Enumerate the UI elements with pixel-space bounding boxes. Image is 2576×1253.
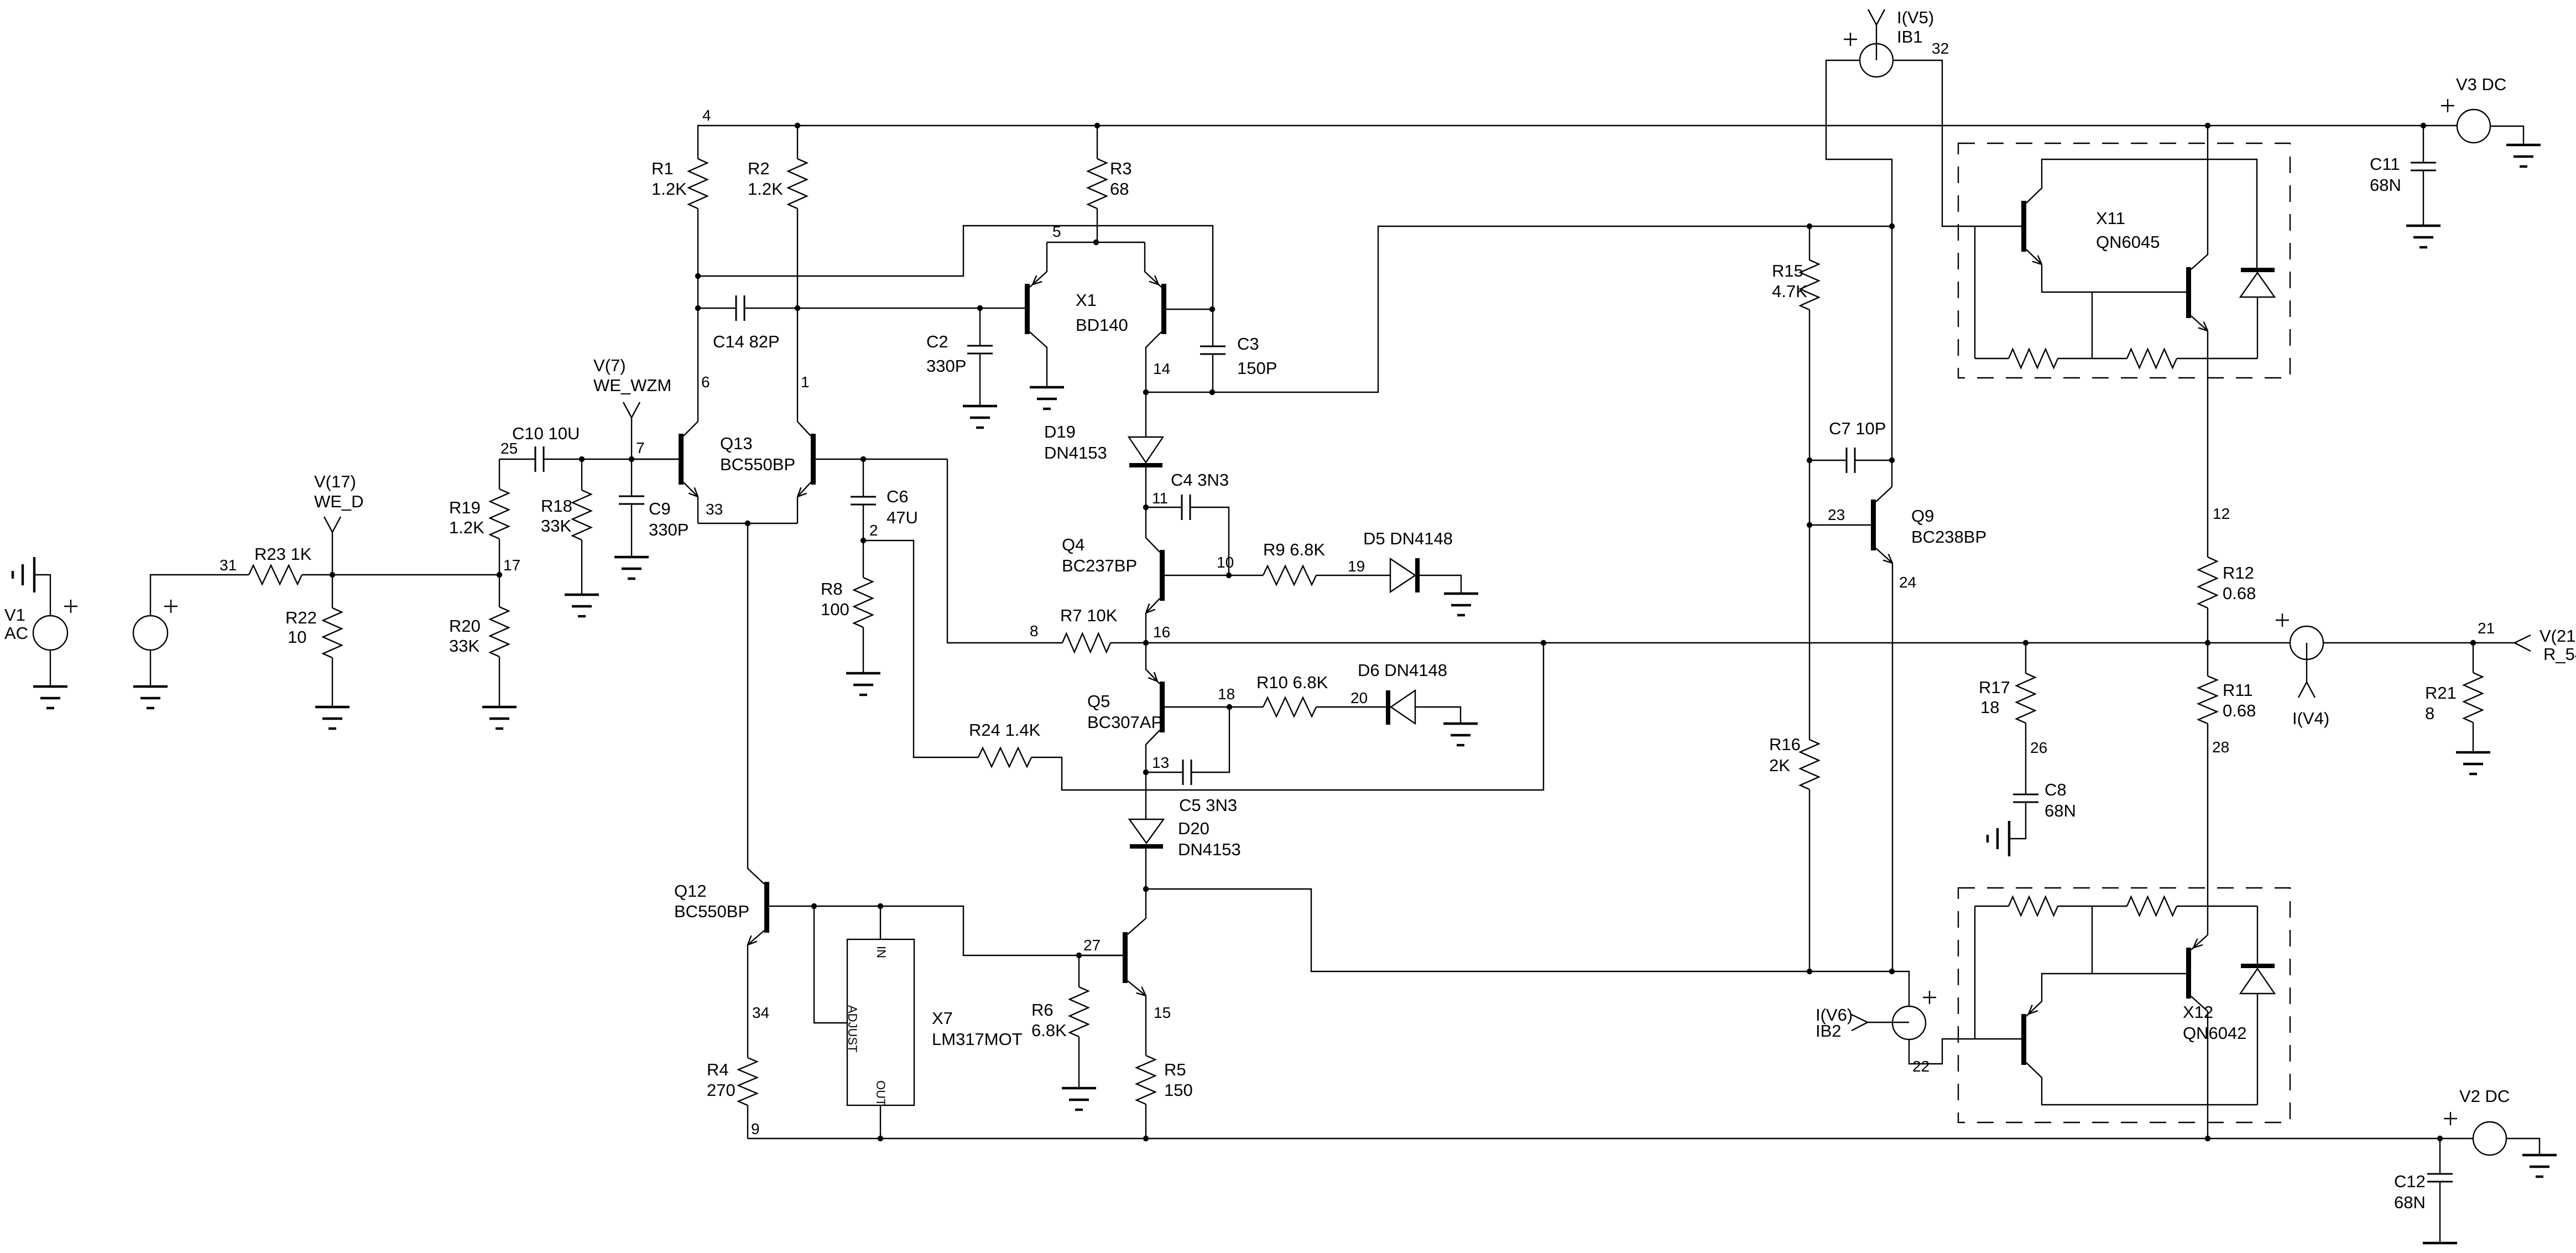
svg-text:1.2K: 1.2K <box>748 179 783 199</box>
svg-text:10: 10 <box>1217 554 1234 571</box>
wire D20 node to X12 drive line <box>1146 889 1909 1006</box>
svg-text:20: 20 <box>1350 689 1368 706</box>
junction R16 bottom <box>1807 969 1812 974</box>
svg-text:15: 15 <box>1154 1004 1171 1021</box>
svg-text:C14 82P: C14 82P <box>713 332 780 351</box>
junction node 10 <box>1226 573 1232 578</box>
junction C6 top <box>861 456 866 462</box>
junction node14 X1 collector <box>1143 389 1149 395</box>
svg-text:1.2K: 1.2K <box>651 179 687 199</box>
resistor R11 <box>2207 643 2208 676</box>
svg-text:Q9: Q9 <box>1911 506 1934 526</box>
svg-text:8: 8 <box>2425 704 2434 723</box>
svg-text:0.68: 0.68 <box>2223 701 2256 720</box>
ground V1 <box>33 685 67 688</box>
voltage source V3 <box>2457 110 2490 143</box>
resistor X12 internal 1 <box>1975 906 2009 907</box>
svg-text:R11: R11 <box>2223 680 2253 700</box>
resistor R7 <box>947 459 1062 643</box>
transistor X11 first <box>2021 201 2026 252</box>
wire V1 top <box>34 575 50 616</box>
ground C11 <box>2406 225 2441 227</box>
svg-text:X1: X1 <box>1076 290 1097 310</box>
svg-text:R15: R15 <box>1772 261 1803 280</box>
capacitor C2 <box>979 308 981 346</box>
junction X12 collector rail <box>2205 1136 2210 1141</box>
svg-text:330P: 330P <box>926 356 966 376</box>
svg-text:C2: C2 <box>926 332 948 351</box>
svg-text:Q4: Q4 <box>1062 535 1084 554</box>
resistor R4 <box>738 1058 757 1105</box>
resistor R5 <box>1136 1056 1155 1104</box>
junction node 5 R3 <box>1093 240 1099 245</box>
diode X11 internal <box>2241 268 2275 272</box>
svg-text:AC: AC <box>4 623 28 643</box>
svg-text:D5 DN4148: D5 DN4148 <box>1363 529 1453 548</box>
current source IB2 <box>1892 1006 1926 1039</box>
junction rail R24 riser <box>1541 640 1546 646</box>
transistor Q13 right half <box>811 434 816 485</box>
svg-text:WE_D: WE_D <box>314 492 364 511</box>
subcircuit box X11 <box>1958 143 2290 378</box>
svg-text:V2 DC: V2 DC <box>2459 1086 2510 1106</box>
svg-text:33K: 33K <box>541 516 571 535</box>
ground C12 <box>2423 1242 2457 1244</box>
junction node 2 <box>861 538 866 543</box>
junction node 11 <box>1143 505 1149 510</box>
svg-text:DN4153: DN4153 <box>1044 443 1107 462</box>
junction C7 right <box>1889 457 1895 463</box>
regulator X7 LM317MOT <box>847 939 914 1105</box>
svg-text:ADJUST: ADJUST <box>846 1005 859 1053</box>
svg-text:68N: 68N <box>2394 1193 2426 1212</box>
svg-text:R22: R22 <box>285 608 317 627</box>
capacitor C11 <box>2423 126 2424 163</box>
junction D20 output node <box>1143 886 1149 892</box>
resistor R6 <box>1078 955 1080 987</box>
svg-text:BC238BP: BC238BP <box>1911 527 1986 547</box>
svg-text:R21: R21 <box>2425 683 2457 703</box>
svg-text:24: 24 <box>1899 574 1916 591</box>
ground V2 <box>2522 1154 2557 1156</box>
resistor R23 <box>249 565 302 584</box>
junction node 13 <box>1143 770 1149 775</box>
svg-text:14: 14 <box>1153 360 1170 377</box>
wire bottom rail node 9 <box>748 1138 2473 1139</box>
junction node14 IB1 line <box>1889 223 1895 229</box>
resistor R16 <box>1800 740 1819 789</box>
current source I(V4) <box>2290 626 2323 659</box>
voltage source V1 <box>33 616 67 650</box>
svg-text:R1: R1 <box>651 159 674 178</box>
capacitor C9 <box>631 459 632 496</box>
svg-text:C8: C8 <box>2045 780 2067 799</box>
junction node 17 <box>497 572 502 578</box>
junction Q13 tail <box>745 521 750 526</box>
svg-text:C11: C11 <box>2370 154 2400 174</box>
svg-text:C12: C12 <box>2394 1172 2426 1191</box>
junction C14 line R2 <box>795 305 800 311</box>
resistor R18 <box>581 459 582 490</box>
svg-text:47U: 47U <box>887 508 918 527</box>
svg-text:R12: R12 <box>2223 563 2254 583</box>
svg-text:R19: R19 <box>449 498 481 517</box>
junction R2 top rail <box>795 123 800 128</box>
svg-text:V(7): V(7) <box>593 356 626 375</box>
wire node 2 to R24 <box>863 540 978 757</box>
junction R15 top <box>1807 223 1812 229</box>
svg-text:C9: C9 <box>649 499 671 518</box>
resistor X11 internal 1 <box>1975 358 2009 359</box>
svg-text:OUT: OUT <box>874 1080 888 1106</box>
capacitor C12 <box>2439 1138 2441 1174</box>
junction Q9 base node 23 <box>1807 522 1812 528</box>
svg-text:0.68: 0.68 <box>2223 584 2256 603</box>
wire C14 line right <box>744 308 1025 309</box>
svg-text:2: 2 <box>869 522 878 539</box>
resistor R15 <box>1809 226 1810 260</box>
transistor X12 second <box>2186 948 2191 999</box>
junction node14 C3 <box>1209 389 1215 395</box>
resistor R8 <box>863 540 864 578</box>
svg-text:R23 1K: R23 1K <box>254 544 312 564</box>
wire node 14 <box>1146 226 1892 392</box>
svg-text:18: 18 <box>1218 685 1235 703</box>
wire X12 internal base ladder <box>1974 906 1975 1039</box>
ground V1 plus (rotated) <box>33 557 35 592</box>
svg-text:9: 9 <box>751 1120 760 1137</box>
diode D20 <box>1145 772 1146 819</box>
svg-text:IB1: IB1 <box>1897 27 1923 46</box>
transistor Q4 <box>1160 550 1165 601</box>
wire IB1 right node 32 to X11 base <box>1893 60 2021 226</box>
svg-text:X11: X11 <box>2096 209 2125 228</box>
transistor X1 right half <box>1161 284 1166 334</box>
junction Q12 base / ADJUST <box>811 903 817 909</box>
svg-text:R3: R3 <box>1110 159 1132 178</box>
svg-text:11: 11 <box>1152 490 1168 507</box>
wire X12 resistor tap <box>2092 906 2093 974</box>
junction C12 rail <box>2437 1136 2443 1141</box>
svg-text:R8: R8 <box>821 579 843 599</box>
junction node 6 R1 <box>695 273 701 279</box>
svg-text:V1: V1 <box>4 605 25 625</box>
svg-text:LM317MOT: LM317MOT <box>932 1030 1023 1049</box>
svg-text:28: 28 <box>2212 739 2229 756</box>
wire Q13 emitter bus <box>698 523 797 524</box>
junction C14 line R1 <box>695 305 701 311</box>
svg-text:19: 19 <box>1348 558 1365 575</box>
node V(17) WE_D antenna <box>332 532 333 575</box>
capacitor C5 <box>1146 772 1183 773</box>
junction node 21 <box>2470 640 2476 646</box>
junction WE_D node <box>330 572 335 578</box>
svg-text:4: 4 <box>702 107 711 124</box>
svg-text:1.2K: 1.2K <box>449 518 484 537</box>
svg-text:33K: 33K <box>449 636 479 656</box>
diode D5 <box>1390 559 1415 592</box>
ground D5 <box>1444 592 1478 595</box>
resistor R10 <box>1229 706 1263 708</box>
svg-text:4.7K: 4.7K <box>1772 282 1807 301</box>
junction node 18 <box>1227 704 1232 710</box>
voltage source V2 <box>2473 1122 2506 1155</box>
svg-text:QN6045: QN6045 <box>2096 232 2160 252</box>
svg-text:BC237BP: BC237BP <box>1062 556 1137 575</box>
wire top supply rail node 4 <box>697 125 2457 126</box>
junction node 7 <box>629 456 634 462</box>
svg-text:IB2: IB2 <box>1816 1021 1842 1041</box>
svg-text:33: 33 <box>706 501 723 518</box>
capacitor C3 <box>1212 310 1213 346</box>
node V(7) WE_WZM antenna <box>631 418 632 459</box>
wire C14 line left <box>698 308 736 309</box>
svg-text:C5 3N3: C5 3N3 <box>1179 796 1237 815</box>
wire IB1 left to node14 line <box>1826 60 1892 226</box>
capacitor C4 <box>1146 507 1182 508</box>
ground input source <box>133 685 168 688</box>
resistor R24 <box>978 748 1031 767</box>
svg-text:R_54: R_54 <box>2543 644 2576 664</box>
diode X12 internal <box>2257 906 2258 964</box>
svg-text:7: 7 <box>636 439 645 456</box>
junction C2 top <box>977 305 983 311</box>
svg-text:31: 31 <box>220 557 237 574</box>
current source IB1 <box>1860 44 1893 77</box>
svg-text:R20: R20 <box>449 616 481 636</box>
svg-text:17: 17 <box>503 557 520 574</box>
transistor Q9 <box>1871 500 1876 550</box>
svg-text:BC307AP: BC307AP <box>1087 713 1162 732</box>
junction rail R17 <box>2023 640 2029 646</box>
svg-text:X7: X7 <box>932 1008 953 1028</box>
subcircuit box X12 <box>1958 888 2290 1122</box>
svg-text:I(V4): I(V4) <box>2292 709 2329 728</box>
wire V1 bottom <box>50 650 51 687</box>
capacitor C8 <box>2013 794 2038 796</box>
svg-text:26: 26 <box>2030 739 2047 756</box>
svg-text:5: 5 <box>1052 223 1061 240</box>
ground R21 <box>2456 751 2490 753</box>
svg-text:R10 6.8K: R10 6.8K <box>1256 673 1328 692</box>
wire IB2 node 22 to X12 base <box>1909 1039 2021 1064</box>
diode D6 <box>1386 690 1390 725</box>
resistor R21 <box>2473 643 2474 673</box>
svg-text:2K: 2K <box>1769 756 1790 775</box>
transistor Q12 <box>764 882 769 933</box>
svg-text:R16: R16 <box>1769 735 1801 754</box>
resistor R20 <box>499 575 500 607</box>
ground D6 <box>1443 722 1478 725</box>
wire source to R23 <box>150 575 249 616</box>
resistor X12 internal 2 <box>2127 897 2177 916</box>
resistor R19 <box>499 459 500 489</box>
junction R18 top <box>579 456 585 462</box>
svg-text:68N: 68N <box>2045 801 2076 820</box>
svg-text:13: 13 <box>1152 754 1169 771</box>
ground C9 <box>614 556 649 558</box>
svg-text:R9 6.8K: R9 6.8K <box>1263 540 1325 559</box>
resistor R17 <box>2025 643 2026 673</box>
wire node 5 <box>1047 242 1145 243</box>
svg-text:QN6042: QN6042 <box>2183 1023 2246 1043</box>
svg-text:68N: 68N <box>2370 175 2401 195</box>
wire output rail node 16 <box>1110 642 2290 643</box>
svg-text:Q12: Q12 <box>674 881 707 901</box>
wire X11 emitter resistor tap <box>2092 292 2093 358</box>
junction X11 collector rail <box>2205 123 2210 128</box>
svg-text:R6: R6 <box>1031 1000 1054 1020</box>
junction Q12 base / IN <box>878 903 883 909</box>
resistor R2 <box>797 126 798 159</box>
ground C2 <box>963 405 997 407</box>
svg-text:V3 DC: V3 DC <box>2456 75 2506 94</box>
junction node 24 bottom <box>1889 969 1895 974</box>
svg-text:C10 10U: C10 10U <box>512 424 580 443</box>
svg-text:100: 100 <box>821 600 849 619</box>
svg-text:27: 27 <box>1083 937 1101 954</box>
svg-text:I(V5): I(V5) <box>1897 8 1934 27</box>
svg-text:V(17): V(17) <box>314 472 356 491</box>
junction rail R12 R11 <box>2205 640 2210 646</box>
svg-text:R4: R4 <box>707 1060 729 1079</box>
capacitor C6 <box>863 459 864 497</box>
svg-text:R2: R2 <box>748 159 770 178</box>
svg-text:8: 8 <box>1030 622 1039 640</box>
transistor output follower <box>1123 932 1128 983</box>
svg-text:D6 DN4148: D6 DN4148 <box>1358 661 1447 680</box>
svg-text:R24 1.4K: R24 1.4K <box>969 720 1041 740</box>
ground V3 <box>2506 144 2541 146</box>
svg-text:18: 18 <box>1980 698 1999 717</box>
svg-text:X12: X12 <box>2183 1002 2213 1022</box>
transistor X11 second <box>2186 267 2191 318</box>
svg-text:1: 1 <box>801 373 810 391</box>
svg-text:R18: R18 <box>541 496 572 516</box>
transistor X12 first <box>2021 1014 2026 1065</box>
junction R3 top rail <box>1094 123 1100 128</box>
output probe V(21) R_54 <box>2515 635 2531 643</box>
svg-text:150P: 150P <box>1237 358 1277 378</box>
junction X7 OUT rail <box>878 1136 883 1141</box>
svg-text:D19: D19 <box>1044 422 1076 441</box>
voltage source input <box>133 616 168 650</box>
svg-text:330P: 330P <box>649 520 689 539</box>
svg-text:C4 3N3: C4 3N3 <box>1171 470 1229 490</box>
resistor R22 <box>332 575 333 608</box>
wire X11 internal base-emitter ladder <box>1974 226 1975 358</box>
wire V3 to ground stub <box>2490 126 2523 145</box>
wire Q9 collector to node14 line <box>1891 226 1892 487</box>
junction node 16 <box>1143 640 1149 646</box>
svg-text:23: 23 <box>1828 506 1845 523</box>
svg-text:R17: R17 <box>1979 678 2010 697</box>
svg-text:C6: C6 <box>887 487 909 506</box>
resistor R3 <box>1097 126 1098 159</box>
ground R6 <box>1062 1087 1096 1089</box>
capacitor C10 <box>499 459 535 460</box>
ground R18 <box>565 594 599 596</box>
wire node6 to C3 top <box>698 226 1213 310</box>
junction node 27 <box>1076 953 1082 958</box>
transistor Q13 left half <box>679 434 684 485</box>
svg-text:22: 22 <box>1912 1058 1930 1075</box>
ground R20 <box>482 706 517 708</box>
svg-text:150: 150 <box>1164 1080 1193 1100</box>
svg-text:C7 10P: C7 10P <box>1829 419 1886 438</box>
resistor R9 <box>1229 575 1263 576</box>
wire X1 right base <box>1166 309 1212 310</box>
resistor R1 <box>697 126 698 159</box>
junction top rail / C11 <box>2421 123 2426 128</box>
wire R24 to output rail <box>1031 643 1543 790</box>
svg-text:Q13: Q13 <box>720 434 753 453</box>
junction C7 left <box>1807 457 1812 463</box>
ground R8 <box>846 672 880 674</box>
svg-text:BC550BP: BC550BP <box>720 455 795 474</box>
wire V2 to ground <box>2506 1138 2540 1155</box>
svg-text:6: 6 <box>701 373 710 391</box>
ground C8 (rotated) <box>2008 821 2010 856</box>
svg-text:21: 21 <box>2478 620 2495 637</box>
svg-text:Q5: Q5 <box>1087 692 1110 711</box>
ground X1 left collector <box>1030 386 1064 388</box>
resistor X11 internal 2 <box>2127 349 2177 368</box>
ground R22 <box>315 706 350 708</box>
svg-text:270: 270 <box>707 1080 736 1100</box>
svg-text:6.8K: 6.8K <box>1031 1021 1067 1040</box>
svg-text:DN4153: DN4153 <box>1178 840 1241 859</box>
wire Q13 right base feedback <box>816 459 947 460</box>
svg-text:C3: C3 <box>1237 334 1259 353</box>
svg-text:10: 10 <box>288 627 306 647</box>
svg-text:12: 12 <box>2213 505 2230 522</box>
resistor R12 <box>2198 557 2217 608</box>
svg-text:BD140: BD140 <box>1076 315 1128 335</box>
svg-text:WE_WZM: WE_WZM <box>593 376 671 395</box>
svg-text:R5: R5 <box>1164 1060 1186 1079</box>
svg-text:BC550BP: BC550BP <box>674 902 749 921</box>
svg-text:68: 68 <box>1110 179 1129 199</box>
svg-text:16: 16 <box>1153 623 1170 641</box>
capacitor C7 <box>1810 460 1847 461</box>
transistor X1 left half <box>1025 284 1030 334</box>
svg-text:32: 32 <box>1932 40 1949 57</box>
svg-text:IN: IN <box>874 946 888 958</box>
svg-text:D20: D20 <box>1178 819 1209 838</box>
svg-text:R7 10K: R7 10K <box>1060 606 1118 625</box>
transistor Q5 <box>1160 682 1165 732</box>
svg-text:34: 34 <box>752 1004 769 1021</box>
svg-text:V(21): V(21) <box>2540 626 2576 646</box>
capacitor C14 <box>736 295 737 321</box>
junction R5 rail <box>1143 1136 1149 1141</box>
diode D19 <box>1145 392 1146 437</box>
wire source bottom <box>150 650 151 687</box>
junction X1 base C3 <box>1209 306 1215 312</box>
